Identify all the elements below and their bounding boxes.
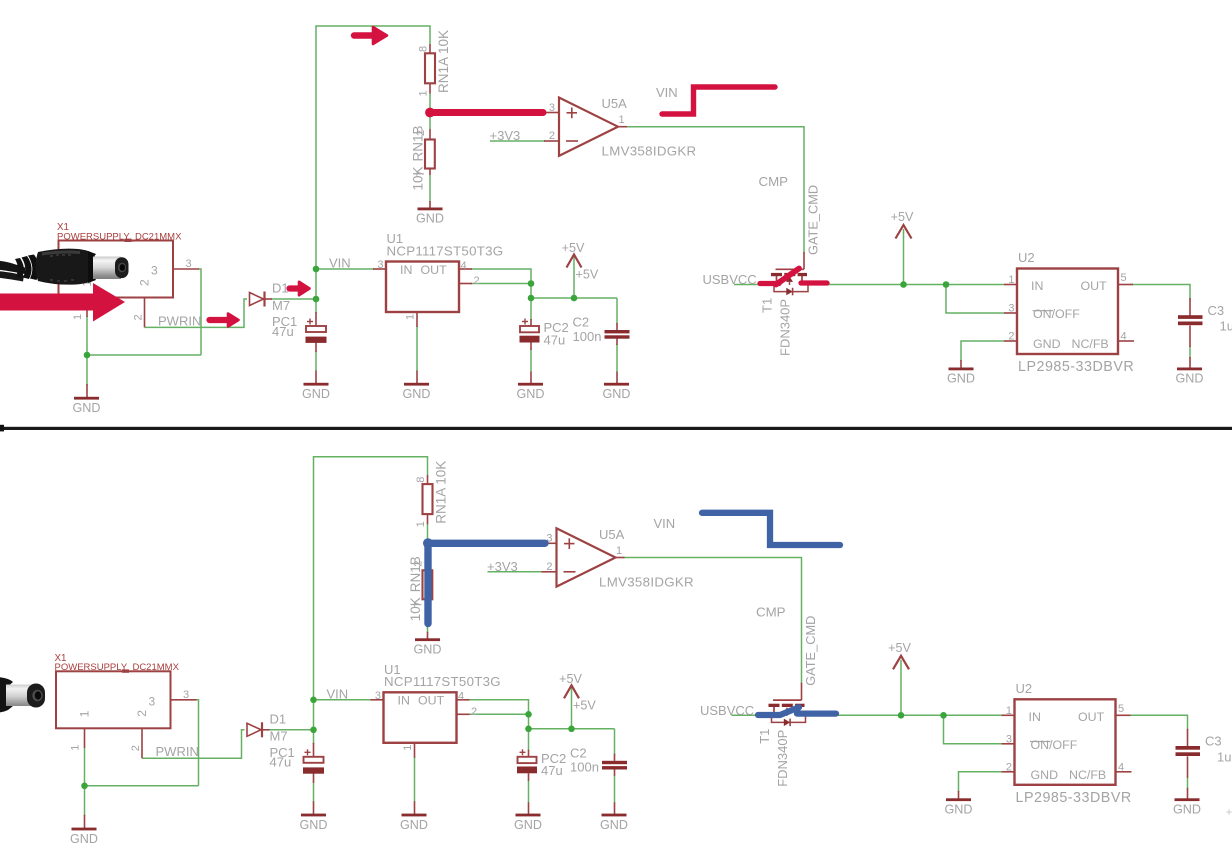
pin stub RN1A top (427, 475, 429, 485)
svg-text:+5V: +5V (573, 698, 596, 712)
supply +5V arrow at T1 (896, 225, 912, 239)
pin stub X1 pin1 (86, 298, 88, 318)
wire VIN to U1 IN (314, 699, 372, 701)
svg-text:NC/FB: NC/FB (1069, 768, 1106, 782)
svg-text:LP2985-33DBVR: LP2985-33DBVR (1016, 790, 1132, 806)
svg-text:2: 2 (474, 275, 480, 287)
svg-text:1: 1 (402, 745, 414, 751)
pin stub U2 OUT (1116, 714, 1131, 716)
pin stub C2 top (614, 754, 616, 761)
pin stub U2 gnd lead (958, 791, 960, 799)
svg-text:GND: GND (300, 818, 328, 832)
svg-text:T1: T1 (757, 729, 772, 744)
node +5V symbol junction (568, 726, 575, 733)
svg-text:1: 1 (619, 114, 625, 126)
pin stub RN1B gnd lead (429, 201, 431, 208)
wire +3V3 to op-amp -input (488, 571, 543, 573)
node T1 drain +5V junction (898, 712, 905, 719)
node U1 OUT junction (528, 280, 535, 287)
svg-text:IN: IN (1029, 710, 1041, 724)
pin stub RN1B top (427, 560, 429, 571)
pin stub X1 pin3 (171, 699, 197, 701)
svg-text:OUT: OUT (1078, 710, 1105, 724)
pin stub PC2 top (528, 750, 530, 757)
pin stub C3 gnd lead (1187, 788, 1189, 799)
photo: DC barrel plug cable (0, 261, 25, 275)
pin stub C2 bottom (616, 339, 618, 346)
wire +3V3 to op-amp -input (490, 140, 545, 142)
annotation: red arrow at PWRIN (210, 317, 231, 323)
pin stub U1 GND (414, 743, 416, 758)
pin stub U2 ON/OFF (1002, 743, 1015, 745)
svg-text:1u: 1u (1217, 749, 1231, 764)
svg-text:M7: M7 (270, 729, 288, 744)
pin stub PC1 gnd lead (313, 801, 315, 814)
wire U2 GND pin (961, 341, 1004, 361)
wire X1 pin1 to GND (86, 316, 88, 385)
svg-text:4: 4 (1121, 331, 1127, 343)
pin stub PC1 top (315, 312, 317, 326)
wire VIN feedback top (316, 26, 430, 299)
annotation: red arrow above D1 (290, 285, 302, 291)
svg-text:3: 3 (1008, 303, 1014, 315)
transistor T1 FDN340P (776, 268, 805, 270)
annotation: red open-switch stroke at T1 (760, 281, 779, 286)
supply +5V arrow at rail (564, 685, 579, 698)
pin stub U2 IN (1004, 284, 1017, 286)
svg-text:ON/OFF: ON/OFF (1033, 307, 1080, 321)
wire +5V rail (529, 728, 615, 730)
pin stub op-amp +in (544, 112, 559, 114)
ground of U2 (946, 798, 971, 801)
svg-text:OUT: OUT (418, 694, 445, 708)
wire C2 bottom (616, 344, 618, 372)
svg-text:3: 3 (375, 690, 381, 702)
svg-text:IN: IN (400, 263, 412, 277)
svg-text:2: 2 (138, 279, 152, 286)
IC U2 LP2985-33DBVR box (1015, 699, 1116, 785)
svg-text:+3V3: +3V3 (487, 559, 518, 574)
svg-text:GATE_CMD: GATE_CMD (803, 616, 818, 686)
pin stub U1 pin2 (457, 713, 470, 715)
wire node to U2 ON/OFF (944, 715, 1002, 744)
photo: plug tip (115, 257, 129, 278)
svg-text:RN1B: RN1B (408, 556, 423, 592)
svg-text:GND: GND (1033, 337, 1061, 351)
svg-text:GND: GND (517, 387, 545, 401)
capacitor C2 100n (605, 330, 630, 333)
svg-text:NC/FB: NC/FB (1072, 337, 1109, 351)
svg-text:LMV358IDGKR: LMV358IDGKR (602, 144, 697, 159)
ground of X1 (74, 397, 99, 400)
svg-text:C2: C2 (570, 745, 587, 760)
pin stub op-amp out (616, 557, 625, 559)
svg-text:47u: 47u (272, 324, 294, 339)
photo: DC plug fragment (0, 677, 13, 713)
supply +5V arrow at rail (567, 255, 582, 268)
svg-text:2: 2 (549, 130, 555, 142)
svg-text:RN1B: RN1B (411, 125, 426, 161)
pin stub U2 GND (1004, 340, 1017, 342)
wire PC2 top (528, 729, 530, 751)
svg-text:3: 3 (151, 264, 158, 278)
resistor RN1B 10K (425, 140, 435, 169)
wire U1 OUT to +5V node (469, 700, 529, 730)
svg-text:+5V: +5V (576, 268, 599, 282)
wire divider to op-amp +input (428, 542, 543, 544)
supply +5V arrow at T1 (893, 656, 909, 670)
svg-text:FDN340P: FDN340P (775, 730, 790, 787)
node VIN junction (313, 266, 320, 273)
svg-text:IN: IN (398, 694, 410, 708)
pin stub C3 gnd lead (1189, 357, 1191, 368)
annotation: blue VIN falling step (702, 513, 840, 545)
svg-text:1: 1 (1006, 705, 1012, 717)
svg-text:3: 3 (377, 259, 383, 271)
wire +5V rail (531, 297, 617, 299)
svg-text:GND: GND (603, 387, 631, 401)
node U2 IN junction (943, 281, 950, 288)
svg-text:CMP: CMP (756, 605, 786, 620)
pin stub RN1A top (429, 44, 431, 54)
IC U1 NCP1117ST50T3G box (386, 262, 459, 313)
ground of C3 (1175, 798, 1200, 801)
wire GND node horizontal (87, 354, 201, 356)
pin stub X1 pin2 (144, 298, 146, 328)
annotation: red wire highlight divider to op-amp (425, 108, 435, 118)
ground of PC1 (301, 814, 326, 817)
wire RN1A to RN1B divider (429, 93, 431, 129)
svg-text:GND: GND (416, 212, 444, 226)
wire RN1B to GND (427, 605, 429, 633)
pin stub RN1B gnd lead (427, 632, 429, 639)
svg-text:1: 1 (1008, 274, 1014, 286)
svg-text:POWERSUPPLY_DC21MMX: POWERSUPPLY_DC21MMX (57, 231, 182, 242)
svg-text:FDN340P: FDN340P (778, 299, 793, 356)
svg-text:GND: GND (945, 803, 973, 817)
svg-text:VIN: VIN (327, 686, 349, 701)
pin stub C3 bottom lead (1189, 326, 1191, 348)
svg-text:GND: GND (947, 372, 975, 386)
svg-text:1: 1 (418, 90, 430, 96)
IC U1 NCP1117ST50T3G box (384, 692, 457, 743)
capacitor PC1 47u (304, 757, 324, 763)
svg-text:3: 3 (183, 689, 189, 701)
svg-text:8: 8 (418, 46, 430, 52)
pin stub X1 pin3 (173, 268, 199, 270)
wire PC1 bottom (313, 782, 315, 802)
svg-text:5: 5 (1118, 703, 1124, 715)
wire +5V symbol drop (571, 687, 573, 729)
svg-text:RN1A 10K: RN1A 10K (434, 461, 449, 524)
svg-text:+3V3: +3V3 (490, 128, 521, 143)
transistor T1 FDN340P (773, 699, 802, 701)
wire node to U2 ON/OFF (946, 285, 1004, 314)
annotation: blue wire highlight divider/RN1B (423, 538, 433, 548)
svg-text:3: 3 (149, 694, 156, 708)
photo: metal barrel (93, 257, 121, 280)
node U1 OUT junction (525, 711, 532, 718)
pin stub PC2 bottom (530, 343, 532, 351)
diode D1 M7 (247, 723, 261, 736)
svg-text:100n: 100n (570, 760, 599, 775)
svg-text:GND: GND (400, 818, 428, 832)
svg-text:U2: U2 (1018, 250, 1035, 265)
pin stub U1 GND (416, 312, 418, 327)
wire C3 bottom (1187, 777, 1189, 789)
top schematic copy (57, 26, 1232, 415)
svg-text:2: 2 (1008, 331, 1014, 343)
svg-text:PWRIN: PWRIN (156, 744, 199, 759)
svg-text:IN: IN (1031, 279, 1043, 293)
annotation: red arrow at top wire (354, 32, 376, 38)
wire RN1B to GND (429, 175, 431, 203)
svg-text:U2: U2 (1016, 681, 1033, 696)
svg-text:VIN: VIN (329, 256, 351, 271)
pin stub X1 pin1 (84, 728, 86, 748)
wire T1 drain to U2 IN (803, 284, 1004, 286)
svg-text:GND: GND (600, 818, 628, 832)
capacitor C3 1u (1178, 315, 1203, 319)
pin stub C2 gnd lead (614, 802, 616, 814)
ground of X1 (72, 828, 97, 831)
pin stub RN1B bottom (427, 599, 429, 606)
capacitor PC2 47u (520, 326, 539, 332)
svg-text:+5: +5 (1226, 805, 1232, 819)
ground of PC2 (516, 814, 541, 817)
pin stub op-amp -in (544, 140, 559, 142)
pin stub U1 gnd lead (414, 801, 416, 814)
photo: strain relief ribs (15, 258, 24, 278)
svg-text:NCP1117ST50T3G: NCP1117ST50T3G (384, 674, 501, 689)
svg-text:ON/OFF: ON/OFF (1031, 738, 1078, 752)
wire GND node horizontal (85, 785, 199, 787)
svg-text:4: 4 (461, 260, 467, 272)
wire X1 pin3 to GND node (196, 700, 199, 786)
svg-text:GND: GND (414, 643, 442, 657)
node D1/PC1 junction (310, 727, 317, 734)
svg-text:1: 1 (72, 314, 84, 320)
pin stub PC2 gnd lead (528, 802, 530, 814)
svg-text:C2: C2 (573, 315, 590, 330)
pin stub D1 cathode (262, 729, 270, 731)
svg-text:8: 8 (415, 477, 427, 483)
wire USBVCC to T1 (734, 284, 772, 286)
ground of RN1B (418, 208, 443, 211)
svg-text:3: 3 (1006, 733, 1012, 745)
svg-text:POWERSUPPLY_DC21MMX: POWERSUPPLY_DC21MMX (55, 662, 180, 673)
node VIN junction (310, 697, 317, 704)
svg-text:RN1A 10K: RN1A 10K (436, 30, 451, 93)
pin stub U2 OUT (1118, 284, 1133, 286)
wire USBVCC to T1 (732, 714, 770, 716)
wire PWRIN net (145, 299, 248, 327)
wire X1 pin3 to GND node (198, 269, 201, 355)
wire U2 GND pin (959, 772, 1002, 792)
wire D1 cathode to VIN node (271, 299, 316, 313)
pin stub C3 bottom lead (1187, 756, 1189, 778)
connector X1 POWERSUPPLY_DC21MMX box (56, 671, 171, 728)
svg-text:VIN: VIN (656, 85, 678, 100)
pin stub op-amp -in (542, 571, 557, 573)
svg-text:2: 2 (130, 745, 142, 751)
svg-text:GND: GND (1031, 768, 1059, 782)
pin stub PC1 gnd lead (315, 371, 317, 384)
wire C3 bottom (1189, 346, 1191, 358)
svg-text:GATE_CMD: GATE_CMD (806, 185, 821, 255)
resistor RN1A 10K (425, 53, 435, 83)
svg-text:GND: GND (403, 387, 431, 401)
svg-text:10K: 10K (411, 166, 426, 190)
svg-text:GND: GND (70, 832, 98, 846)
wire +5V drop at T1 (900, 660, 902, 716)
svg-text:GND: GND (302, 387, 330, 401)
svg-text:GND: GND (1176, 372, 1204, 386)
pin stub U2 gnd lead (960, 360, 962, 368)
svg-text:47u: 47u (544, 332, 566, 347)
svg-text:47u: 47u (541, 763, 563, 778)
svg-text:GND: GND (1173, 803, 1201, 817)
svg-text:1: 1 (616, 545, 622, 557)
svg-text:4: 4 (1118, 761, 1124, 773)
capacitor PC1 47u (306, 326, 326, 332)
bottom schematic copy (55, 457, 1232, 846)
pin stub PC1 bottom lead (313, 773, 315, 783)
wire op-amp output CMP/GATE_CMD (624, 558, 802, 684)
capacitor C3 1u (1176, 746, 1201, 750)
svg-text:T1: T1 (760, 298, 775, 313)
ground of C2 (602, 814, 627, 817)
svg-text:OUT: OUT (1081, 279, 1108, 293)
pin stub PC1 bottom lead (315, 343, 317, 353)
svg-text:C3: C3 (1208, 303, 1225, 318)
svg-text:2: 2 (133, 314, 145, 320)
wire T1 drain to U2 IN (801, 714, 1002, 716)
svg-text:2: 2 (1006, 761, 1012, 773)
wire PC2 top (530, 298, 532, 320)
ground of RN1B (415, 638, 440, 641)
node U2 IN junction (940, 712, 947, 719)
wire U1 GND pin (416, 326, 418, 371)
node X1 GND junction (81, 783, 88, 790)
svg-text:2: 2 (135, 710, 149, 717)
ground of C3 (1177, 368, 1202, 371)
pin stub U2 NC/FB (1116, 771, 1132, 773)
annotation: big red arrow over plug (0, 294, 94, 311)
pin stub C2 bottom (614, 769, 616, 776)
pin stub RN1A bottom (427, 514, 429, 525)
svg-text:10K: 10K (408, 597, 423, 621)
connector X1 POWERSUPPLY_DC21MMX box (59, 241, 174, 298)
ground of C2 (604, 383, 629, 386)
pin stub U2 IN (1002, 714, 1015, 716)
svg-text:M7: M7 (272, 298, 290, 313)
wire +5V symbol drop (573, 256, 575, 298)
annotation: blue closed-switch stroke at T1 (758, 707, 799, 715)
svg-text:47u: 47u (270, 755, 292, 770)
svg-text:NCP1117ST50T3G: NCP1117ST50T3G (387, 243, 504, 258)
pin stub X1 pin2 (141, 728, 143, 758)
pin stub C3 top (1189, 298, 1191, 316)
svg-text:2: 2 (471, 706, 477, 718)
wire PC2 bottom (530, 349, 532, 372)
pin stub T1 gate (801, 683, 803, 700)
svg-text:+5V: +5V (888, 641, 911, 655)
svg-text:+5V: +5V (562, 241, 585, 255)
ground of U2 (949, 368, 974, 371)
annotation: red VIN rising step (662, 87, 775, 114)
wire U1 OUT to +5V node (471, 269, 531, 299)
svg-text:1: 1 (405, 314, 417, 320)
wire U1 GND pin (414, 757, 416, 802)
wire PC1 bottom (315, 351, 317, 371)
svg-text:C3: C3 (1205, 734, 1222, 749)
svg-text:PWRIN: PWRIN (158, 313, 201, 328)
wire divider to op-amp +input (430, 112, 545, 114)
wire U1 pin2 to node (469, 713, 529, 715)
wire U2 OUT to C3 (1132, 285, 1190, 300)
pin stub U1 IN (373, 268, 386, 270)
wire C2 bottom (614, 775, 616, 803)
wire PC2 bottom (528, 780, 530, 803)
pin stub X1 gnd lead (84, 815, 86, 829)
svg-text:2: 2 (546, 561, 552, 573)
pin stub T1 gate (803, 252, 805, 269)
pin stub U1 pin2 (459, 283, 472, 285)
capacitor PC2 47u (518, 757, 537, 763)
svg-text:3: 3 (186, 258, 192, 270)
svg-text:CMP: CMP (759, 174, 789, 189)
svg-text:4: 4 (458, 691, 464, 703)
wire VIN feedback top (314, 457, 428, 730)
pin stub C2 gnd lead (616, 372, 618, 384)
svg-text:1: 1 (415, 521, 427, 527)
svg-text:USBVCC: USBVCC (703, 272, 757, 287)
pin stub PC2 gnd lead (530, 372, 532, 384)
pin stub U2 NC/FB (1118, 340, 1134, 342)
svg-text:5: 5 (1121, 272, 1127, 284)
resistor RN1B 10K (423, 570, 433, 599)
wire C2 top (616, 298, 618, 324)
pin stub C2 top (616, 323, 618, 330)
node X1 GND junction (84, 352, 91, 359)
node +5V rail junction (525, 726, 532, 733)
pin stub RN1B top (429, 129, 431, 140)
op-amp U5A LMV358IDGKR (559, 98, 618, 156)
node +5V symbol junction (571, 295, 578, 302)
svg-text:100n: 100n (573, 329, 602, 344)
pin stub U1 gnd lead (416, 371, 418, 384)
pin stub U1 IN (371, 699, 384, 701)
svg-text:1: 1 (70, 745, 82, 751)
wire U2 OUT to C3 (1130, 715, 1188, 730)
svg-text:GND: GND (514, 818, 542, 832)
ground of U1 (404, 383, 429, 386)
pin stub U1 OUT (459, 268, 472, 270)
svg-text:1u: 1u (1220, 319, 1232, 334)
photo: plug body (36, 249, 96, 285)
pin stub op-amp out (618, 126, 627, 128)
capacitor C2 100n (602, 761, 627, 764)
ground of U1 (402, 814, 427, 817)
svg-text:USBVCC: USBVCC (700, 703, 754, 718)
svg-text:U5A: U5A (599, 527, 625, 542)
svg-text:+5V: +5V (891, 210, 914, 224)
node T1 drain +5V junction (900, 281, 907, 288)
op-amp U5A LMV358IDGKR (557, 528, 616, 586)
node +5V rail junction (528, 295, 535, 302)
wire RN1A to RN1B divider (427, 524, 429, 560)
